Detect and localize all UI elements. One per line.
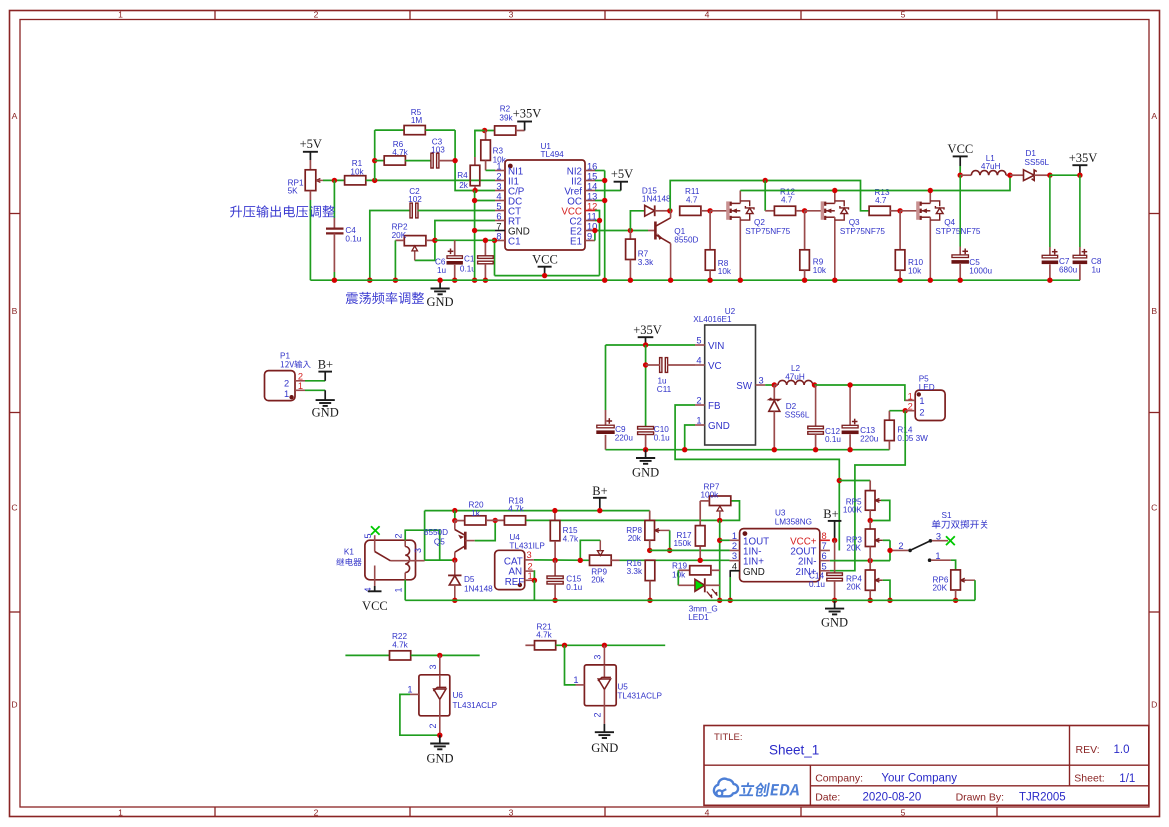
junction R12 tap on bias rail	[763, 178, 768, 183]
junction C14 on rail / gnd symbol	[832, 598, 837, 603]
wire RP2 left to GND rail	[394, 240, 396, 280]
svg-text:C1: C1	[508, 237, 521, 248]
junction pin15 riser	[602, 178, 607, 183]
wire C1-row riser to VCC line	[494, 240, 496, 275]
svg-text:Q5: Q5	[434, 537, 445, 546]
capacitor C14 0.1u	[809, 540, 842, 600]
svg-text:4.7k: 4.7k	[536, 631, 552, 640]
wire rail left drop to relay row	[425, 511, 455, 560]
svg-text:LED: LED	[919, 383, 935, 392]
svg-text:LED1: LED1	[688, 613, 709, 622]
resistor R11 4.7	[680, 187, 710, 215]
svg-text:+5V: +5V	[611, 167, 633, 181]
svg-text:VC: VC	[708, 361, 722, 372]
wire U6 ref loop	[400, 694, 440, 735]
resistor R21 4.7k	[525, 623, 665, 650]
svg-text:+5V: +5V	[300, 137, 322, 151]
svg-text:47uH: 47uH	[981, 162, 1001, 171]
junction C15 top	[552, 558, 557, 563]
wire U1 pin4 DC row	[475, 200, 495, 202]
svg-text:20K: 20K	[392, 231, 407, 240]
svg-text:1.0: 1.0	[1114, 744, 1130, 756]
svg-text:1N4148: 1N4148	[464, 584, 493, 593]
wire RP2 node to wiper	[415, 240, 435, 260]
svg-text:20K: 20K	[846, 582, 861, 591]
IC U1 TL494	[495, 142, 597, 250]
junction RP1/R1/C4	[332, 178, 337, 183]
junction RP3 bottom / RP4 top	[868, 558, 873, 563]
resistor R13 4.7	[869, 188, 900, 216]
junction RP6 bottom on rail	[953, 598, 958, 603]
svg-text:FB: FB	[708, 401, 721, 412]
svg-text:Sheet_1: Sheet_1	[769, 743, 819, 758]
junction RP8 wiper	[667, 548, 672, 553]
svg-text:1000u: 1000u	[969, 266, 992, 275]
svg-text:7: 7	[822, 541, 827, 551]
svg-text:0.1u: 0.1u	[809, 580, 825, 589]
wire 1IN- row to U3 pin2	[650, 549, 730, 551]
svg-text:2: 2	[314, 807, 319, 817]
junction C2 left on GND rail	[367, 278, 372, 283]
svg-text:4.7k: 4.7k	[392, 640, 408, 649]
svg-text:GND: GND	[708, 421, 730, 432]
svg-text:20K: 20K	[846, 543, 861, 552]
resistor R3 10k	[481, 131, 507, 171]
svg-text:Your Company: Your Company	[881, 773, 957, 785]
junction R2/R3/R4	[482, 128, 487, 133]
net flag B+ (P1)	[318, 358, 333, 381]
svg-text:TL431ACLP: TL431ACLP	[617, 692, 662, 701]
svg-text:TJR2005: TJR2005	[1019, 791, 1066, 803]
junction C1 top	[483, 238, 488, 243]
title block	[704, 726, 1149, 806]
MOSFET Q2 STP75NF75	[710, 191, 791, 281]
capacitor C15 0.1u	[547, 560, 583, 600]
potentiometer RP2 20K	[392, 223, 435, 261]
svg-text:3: 3	[936, 532, 941, 542]
svg-text:2: 2	[898, 541, 903, 551]
svg-text:5: 5	[696, 336, 701, 346]
svg-text:2: 2	[284, 379, 289, 389]
svg-text:100k: 100k	[701, 491, 720, 500]
svg-text:REV:: REV:	[1076, 744, 1100, 756]
wire B+ rail (lower)	[425, 510, 650, 512]
IC U5 TL431ACLP	[573, 645, 662, 724]
junction R17 bottom on 1IN+ row	[698, 558, 703, 563]
wire U4 CAT row	[534, 559, 590, 561]
svg-text:C: C	[11, 503, 17, 513]
svg-text:+35V: +35V	[513, 107, 542, 121]
svg-text:3: 3	[509, 807, 514, 817]
wire emitter node	[454, 511, 456, 521]
wire CAT row to U3 pin3	[620, 559, 730, 561]
svg-text:3: 3	[732, 551, 737, 561]
svg-text:103: 103	[431, 145, 445, 154]
svg-text:4: 4	[732, 561, 737, 571]
ground symbol (U6)	[426, 735, 453, 765]
net flag B+ (U3 VCC)	[823, 507, 841, 541]
svg-text:B: B	[1151, 306, 1157, 316]
junction U3 pin8 / B+ / C14	[832, 538, 837, 543]
resistor R12 4.7	[765, 187, 804, 215]
svg-text:8: 8	[822, 531, 827, 541]
svg-text:R4: R4	[457, 171, 468, 180]
junction R15 top on rail	[552, 508, 557, 513]
wire U2 GND pin to rail	[685, 425, 695, 450]
svg-text:1: 1	[298, 381, 303, 391]
capacitor C7 680u	[1042, 175, 1078, 280]
junction C13 on rail	[847, 447, 852, 452]
wire RP1 bottom to GND rail	[309, 200, 311, 280]
wire C1 row to U1 pin8	[435, 239, 495, 241]
svg-text:SW: SW	[736, 381, 753, 392]
GND rail (top section)	[310, 279, 1080, 281]
junction B+ stem	[597, 508, 602, 513]
wire R14 top to P5 pin2	[889, 410, 905, 412]
svg-text:5: 5	[822, 561, 827, 571]
svg-text:7: 7	[496, 221, 501, 231]
wire RP5 wiper loop	[870, 500, 890, 520]
svg-text:10k: 10k	[813, 266, 827, 275]
svg-text:1: 1	[393, 587, 403, 592]
junction R8 on rail	[707, 278, 712, 283]
ground symbol (P1)	[312, 390, 339, 419]
svg-text:R2: R2	[500, 105, 511, 114]
svg-text:Drawn By:: Drawn By:	[956, 792, 1004, 804]
diode D5 1N4148	[448, 560, 493, 600]
svg-text:220u: 220u	[615, 434, 634, 443]
svg-text:A: A	[12, 111, 18, 121]
svg-text:TL431ILP: TL431ILP	[509, 541, 545, 550]
svg-text:0.1u: 0.1u	[566, 583, 582, 592]
svg-text:2k: 2k	[459, 181, 469, 190]
wire FB node to RP5 top	[839, 480, 870, 482]
junction VCC / L1 left	[958, 173, 963, 178]
resistor R17 150k	[674, 501, 706, 560]
IC U4 TL431ILP	[495, 533, 546, 590]
junction R7 on rail	[628, 278, 633, 283]
svg-text:10k: 10k	[718, 267, 732, 276]
junction Q4 drain on bus	[928, 188, 933, 193]
svg-text:10k: 10k	[350, 168, 364, 177]
junction C15 on gnd rail	[552, 598, 557, 603]
wire RP1 wiper to R1	[323, 179, 344, 181]
ground symbol (middle)	[632, 450, 659, 480]
junction Q5 collector / K1 / D5	[452, 557, 457, 562]
svg-text:U6: U6	[453, 691, 464, 700]
transistor Q5 8550D	[424, 521, 475, 561]
wires U1 pins E2/E1 tied	[595, 231, 648, 241]
wire R12 riser	[764, 181, 766, 211]
svg-text:GND: GND	[591, 741, 618, 755]
svg-text:5: 5	[901, 10, 906, 20]
svg-text:C: C	[1151, 503, 1157, 513]
junction C1 bottom	[483, 278, 488, 283]
wire RP3 wiper to S1 and 2IN- row	[883, 540, 890, 560]
wire U4 ref to gnd rail	[533, 580, 535, 600]
svg-text:R3: R3	[493, 146, 504, 155]
svg-text:3: 3	[592, 655, 602, 660]
capacitor C6 1u	[435, 240, 463, 280]
junction C10/gnd	[643, 447, 648, 452]
capacitor C9 220u	[596, 410, 633, 450]
wire gate bias rail y180.5	[670, 181, 869, 211]
diode D15 1N4148	[630, 186, 671, 230]
junction +35V on VIN row	[643, 342, 648, 347]
svg-text:TITLE:: TITLE:	[714, 732, 743, 743]
diode D2 SS56L (freewheel)	[769, 385, 810, 450]
junction base row / D15 branch	[628, 228, 633, 233]
svg-text:3.3k: 3.3k	[627, 567, 643, 576]
junction R16 on gnd rail	[647, 598, 652, 603]
svg-text:4: 4	[496, 191, 501, 201]
resistor R20 1k	[455, 501, 486, 525]
svg-text:C1: C1	[464, 255, 475, 264]
junction U6 anode/ref	[437, 733, 442, 738]
junction C13 top	[847, 382, 852, 387]
svg-text:220u: 220u	[860, 435, 879, 444]
svg-text:5K: 5K	[288, 187, 299, 196]
resistor R4 2k	[457, 131, 484, 191]
svg-text:20k: 20k	[628, 534, 642, 543]
capacitor C8 1u	[1073, 175, 1102, 280]
svg-text:D5: D5	[464, 575, 475, 584]
junction riser on gnd rail	[717, 598, 722, 603]
junction U4 ref	[532, 578, 537, 583]
svg-text:39k: 39k	[499, 113, 513, 122]
svg-text:U3: U3	[775, 509, 786, 518]
wire 2IN- row	[830, 560, 890, 562]
svg-text:4.7k: 4.7k	[392, 148, 408, 157]
svg-text:0.1u: 0.1u	[345, 235, 361, 244]
net flag VCC (input)	[948, 142, 974, 175]
wire K1 pin1 to gnd rail	[404, 580, 406, 601]
IC U6 TL431ACLP	[407, 655, 497, 735]
svg-text:C11: C11	[657, 385, 672, 394]
capacitor C3 103	[431, 137, 455, 168]
wire output row to P5	[815, 385, 916, 400]
junction U3 gnd on rail	[728, 598, 733, 603]
svg-text:4.7: 4.7	[686, 195, 698, 204]
wire RP4 wiper to gnd rail	[883, 580, 890, 600]
svg-text:150k: 150k	[674, 539, 693, 548]
svg-text:GND: GND	[312, 406, 339, 420]
svg-text:47uH: 47uH	[785, 372, 805, 381]
junction D5 on gnd rail	[452, 598, 457, 603]
svg-text:XL4016E1: XL4016E1	[693, 315, 732, 324]
junction C1-row riser	[492, 238, 497, 243]
svg-text:9: 9	[587, 231, 592, 241]
svg-text:5: 5	[901, 807, 906, 817]
svg-text:1k: 1k	[471, 509, 481, 518]
svg-text:D: D	[1151, 700, 1157, 710]
junction U2 gnd on rail	[682, 447, 687, 452]
wire Q5 base to R20/R18 junction	[475, 520, 496, 540]
svg-text:5: 5	[496, 201, 501, 211]
svg-text:1: 1	[496, 161, 501, 171]
junction pin4 riser	[472, 198, 477, 203]
svg-text:1: 1	[284, 389, 289, 399]
potentiometer RP3 20K	[846, 521, 883, 561]
svg-text:1: 1	[732, 531, 737, 541]
svg-text:E1: E1	[570, 237, 582, 248]
svg-text:GND: GND	[821, 616, 848, 630]
junction pin13 riser	[602, 198, 607, 203]
svg-text:2: 2	[393, 533, 403, 538]
junction R9 on rail	[802, 278, 807, 283]
svg-text:4: 4	[696, 356, 701, 366]
svg-text:S1: S1	[942, 511, 952, 520]
svg-text:2: 2	[428, 723, 438, 728]
svg-text:2020-08-20: 2020-08-20	[863, 791, 922, 803]
svg-text:8550D: 8550D	[424, 528, 448, 537]
svg-text:K1: K1	[344, 547, 354, 556]
junction S1 pin2	[887, 548, 892, 553]
svg-text:2: 2	[696, 396, 701, 406]
svg-text:1: 1	[919, 396, 924, 406]
junction R21 right / U5 ref	[562, 643, 567, 648]
potentiometer RP6 20K	[933, 570, 976, 600]
resistor R9 10k	[800, 211, 827, 280]
resistor R22 4.7k	[345, 632, 479, 660]
junction U6 cathode tap	[437, 653, 442, 658]
net flag +35V (R2)	[513, 107, 542, 131]
wire P1 pin1 to GND	[305, 389, 325, 391]
logo LCEDA	[714, 779, 799, 797]
junction RP4 wiper on rail	[887, 598, 892, 603]
junction C6 bottom on GND rail	[452, 278, 457, 283]
junction R6 left	[372, 158, 377, 163]
switch S1 SPDT	[890, 511, 988, 562]
wire VCC line	[495, 275, 600, 277]
IC U3 LM358NG	[730, 509, 830, 582]
diode D1 SS56L	[1010, 149, 1050, 180]
junction D2 on rail	[772, 447, 777, 452]
junction D1 cathode / C7	[1047, 173, 1052, 178]
svg-text:Q2: Q2	[754, 218, 765, 227]
svg-text:4.7k: 4.7k	[563, 534, 579, 543]
svg-text:TL494: TL494	[541, 150, 565, 159]
wire RP8 wiper down	[669, 530, 671, 550]
wire 1OUT to U3 pin1	[720, 539, 730, 541]
net flag B+ (comparator rail)	[592, 484, 607, 511]
junction Q4 source on rail	[928, 278, 933, 283]
svg-text:SS56L: SS56L	[785, 411, 810, 420]
svg-text:Q4: Q4	[944, 218, 955, 227]
junction C5 on rail	[958, 278, 963, 283]
svg-text:3: 3	[496, 181, 501, 191]
svg-text:TL431ACLP: TL431ACLP	[453, 701, 498, 710]
wire VIN row	[606, 344, 696, 346]
junction pin11/pin12	[597, 218, 602, 223]
svg-text:Sheet:: Sheet:	[1074, 773, 1104, 785]
junction C4 on rail	[332, 278, 337, 283]
svg-text:4: 4	[705, 807, 710, 817]
junction RP5 bottom / RP3 top	[868, 518, 873, 523]
svg-text:B+: B+	[592, 484, 607, 498]
junction RP7 wiper on row	[717, 518, 722, 523]
MOSFET Q3 STP75NF75	[805, 191, 886, 281]
svg-text:5: 5	[363, 533, 373, 538]
junction C3 right	[452, 158, 457, 163]
svg-text:P5: P5	[919, 374, 929, 383]
svg-text:VIN: VIN	[708, 341, 724, 352]
svg-text:4: 4	[705, 10, 710, 20]
svg-text:VCC: VCC	[362, 599, 388, 613]
resistor R2 39k	[474, 105, 524, 135]
wire RP7/1OUT riser	[719, 520, 721, 600]
svg-text:REF: REF	[505, 577, 525, 588]
junction Q1 emitter on rail	[668, 278, 673, 283]
junction Q3 source on rail	[832, 278, 837, 283]
junction SW / D2	[772, 382, 777, 387]
junction R1/feedback riser	[372, 178, 377, 183]
capacitor C5 1000u	[951, 175, 992, 280]
svg-text:2: 2	[908, 402, 913, 412]
svg-text:3: 3	[428, 664, 438, 669]
junction RP4 bottom on rail	[868, 598, 873, 603]
wire RP9 wiper loop	[580, 540, 600, 560]
wire D1 node to +35V	[1050, 174, 1080, 176]
svg-text:0.05 3W: 0.05 3W	[897, 434, 928, 443]
net flag +5V (left)	[300, 137, 322, 170]
svg-text:VCC: VCC	[948, 142, 974, 156]
capacitor C2 102	[370, 187, 495, 280]
junction R20/R18/Q5 base	[493, 518, 498, 523]
junction C7 on rail	[1047, 278, 1052, 283]
relay K1	[336, 526, 424, 592]
svg-text:SS56L: SS56L	[1025, 158, 1050, 167]
capacitor C12 0.1u	[808, 385, 842, 450]
svg-text:3: 3	[413, 548, 423, 553]
net flag +5V (Vref)	[611, 167, 633, 191]
junction riser on GND rail	[472, 278, 477, 283]
wire feedback right riser x455.1 to pin3 row	[455, 130, 495, 190]
wire pin3/4/7 ground riser x474.6	[474, 191, 476, 281]
wire U1 pin14 Vref to +5V	[595, 190, 621, 192]
MOSFET Q4 STP75NF75	[900, 191, 981, 281]
capacitor C1 0.1u	[460, 240, 493, 280]
svg-text:1/1: 1/1	[1119, 773, 1135, 785]
svg-text:GND: GND	[632, 466, 659, 480]
svg-text:GND: GND	[426, 751, 453, 765]
net flag VCC (U1)	[532, 252, 558, 275]
svg-text:GND: GND	[743, 567, 765, 578]
svg-text:6: 6	[822, 551, 827, 561]
svg-text:1: 1	[118, 807, 123, 817]
GND rail (middle section)	[606, 449, 890, 451]
junction gnd symbol	[437, 278, 442, 283]
svg-text:B+: B+	[318, 358, 333, 372]
resistor R19 10k	[672, 562, 720, 580]
wire U5 ref to R21 row	[565, 645, 576, 685]
IC U2 XL4016E1	[693, 307, 765, 445]
junction Q3 drain on bus	[832, 188, 837, 193]
svg-text:1N4148: 1N4148	[642, 195, 671, 204]
svg-text:1: 1	[935, 551, 940, 561]
connector P1 12V input	[265, 351, 311, 400]
resistor R8 10k	[705, 211, 732, 280]
resistor R10 10k	[895, 211, 923, 280]
svg-text:STP75NF75: STP75NF75	[745, 227, 790, 236]
svg-text:2: 2	[919, 407, 924, 417]
wire U4 AN to REF	[533, 571, 536, 580]
svg-text:AN: AN	[509, 567, 523, 578]
resistor R1 10k	[345, 159, 366, 185]
svg-text:3: 3	[527, 550, 532, 560]
wire U1 pin12 VCC down to VCC line	[595, 211, 600, 276]
resistor R5 1M	[375, 108, 455, 135]
